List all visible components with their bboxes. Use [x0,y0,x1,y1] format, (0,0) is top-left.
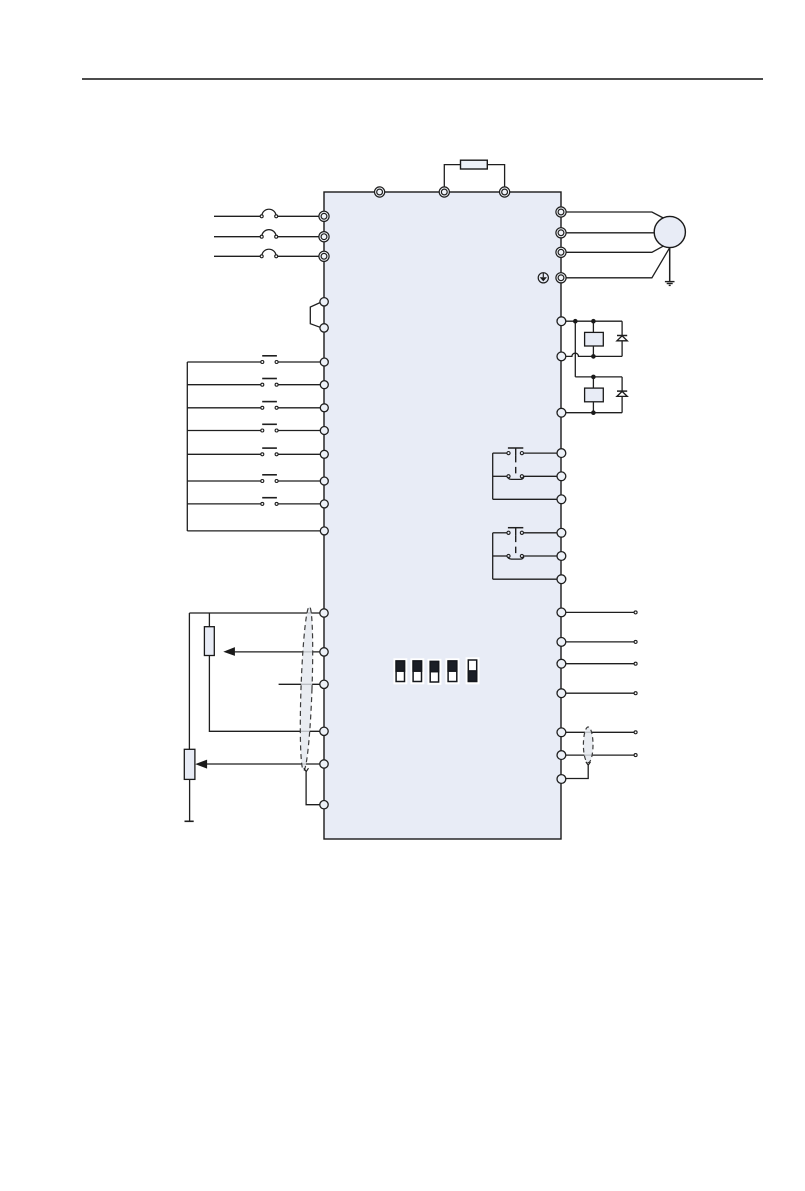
relay coil K2 [585,388,604,402]
contact RO1 NC [507,475,524,480]
PE symbol [538,273,548,283]
wire relay2 coil top stub [592,377,594,388]
terminal U [556,207,566,217]
wire DI5 [187,453,324,455]
switch DI3 [261,402,278,410]
contact RO2 NC [507,554,524,559]
terminal DI5 [320,450,328,458]
wire DI1 [187,361,324,363]
terminal relay2 [557,408,566,417]
wire braking resistor left leg [444,165,460,192]
wire braking resistor right leg [487,165,504,192]
terminal W [556,247,566,257]
shield arrow tail [586,762,591,765]
terminal DI6 [320,477,328,485]
wire DI6 [187,480,324,482]
terminal top-1 [375,187,385,197]
shield arrow tail analog [304,768,309,771]
wire RO2 bus [492,533,494,579]
wire relay1 coil top stub [592,321,594,332]
wire RO2 NC line [493,555,561,557]
terminal AGND [320,727,328,735]
wire shield drain to terminal [306,772,324,805]
breaker pole S [260,230,278,239]
wire R1 bottom to GND terminal [209,656,324,732]
terminal AI2 [320,680,328,688]
terminal AO1 [557,608,566,617]
ground tick [185,820,194,822]
terminal DI4 [320,427,328,435]
wire RO1 NO line [493,452,561,454]
terminal +10V [320,609,328,617]
potentiometer R1 [204,627,214,656]
terminal 485+ [557,728,566,737]
terminal AO2 [557,659,566,668]
wire AI2 stub [279,683,324,685]
terminal RO2-A [557,528,566,537]
wire end AO2 [634,662,637,665]
wire output V [561,232,654,234]
wire DI3 [187,407,324,409]
wire end GND1 [634,640,637,643]
wire input S [214,236,324,238]
terminal DI1 [320,358,328,366]
wire output U [561,212,663,218]
wire GND2 [561,692,634,694]
wire relay2 return rail [561,412,622,414]
switch DI4 [261,424,278,432]
inverter main block [324,192,561,839]
terminal 485- [557,751,566,760]
wire GND1 [561,641,634,643]
wire DI4 [187,430,324,432]
terminal RO1-A [557,449,566,458]
terminal COM [320,527,328,535]
dip switch S1 [393,658,407,684]
breaker pole T [260,249,278,258]
contact RO2 actuator [508,528,523,558]
terminal DI3 [320,404,328,412]
terminal AI3 [320,760,328,768]
dip switch S3 [428,659,442,685]
terminal RO1-B [557,472,566,481]
dip switch S2 [410,658,424,684]
wire R2 bottom [189,779,191,821]
terminal V [556,228,566,238]
motor ground lead [669,248,671,282]
wire relay2 coil bottom stub [592,402,594,413]
terminal top-3 [500,187,510,197]
terminal R [319,211,329,221]
terminal GND1 [557,638,566,647]
switch DI5 [261,448,278,456]
wire COM [187,530,324,532]
terminal AI1 [320,648,328,656]
wire AO2 [561,663,634,665]
wire 485+ [561,731,634,733]
potentiometer R2 [184,749,195,779]
wire RO2 common line [493,578,561,580]
switch DI6 [261,475,278,483]
diode D1 [617,321,627,356]
switch DI7 [261,498,278,506]
jumper terminal lower [320,324,328,332]
terminal DI7 [320,500,328,508]
wire DI7 [187,503,324,505]
terminal DI2 [320,381,328,389]
breaker pole R [260,209,278,218]
junction dots relay rails [573,319,596,415]
wire AI1 with wiper arrow [223,647,324,656]
wire relay supply rail [561,320,622,322]
jumper terminal upper [320,298,328,306]
wire +10V supply [189,612,324,614]
wire RO1 bus [492,453,494,499]
dip switch S5 [466,657,480,684]
contact RO1 actuator [508,448,523,478]
braking resistor [461,160,488,169]
terminal RO1-C [557,495,566,504]
switch DI2 [261,379,278,387]
switch DI1 [261,356,278,364]
terminal T [319,251,329,261]
jumper bracket [310,303,320,328]
terminal S [319,232,329,242]
terminal comm GND [557,775,566,784]
terminal GND2 [557,689,566,698]
motor M [654,216,685,247]
wire end 485+ [634,731,637,734]
shield ellipse comm cable [583,727,593,763]
terminal top-2 [439,187,449,197]
shield ellipse analog cable [298,606,315,770]
terminal PE [556,273,566,283]
wire end GND2 [634,692,637,695]
terminal RO2-C [557,575,566,584]
contact RO1 NO [507,452,524,455]
wire end AO1 [634,611,637,614]
dip switch S4 [445,658,459,684]
wire input R [214,215,324,217]
digital input common bus [186,362,188,531]
contact RO2 NO [507,531,524,534]
wire end 485- [634,754,637,757]
wire output PE to motor ground [561,248,669,278]
wire RO2 NO line [493,532,561,534]
relay coil K1 [585,332,604,346]
wire DI2 [187,384,324,386]
wire relay2 feed vertical [574,321,576,377]
terminal relay supply [557,317,566,326]
diode D2 [617,377,627,413]
wire output W [561,246,663,252]
wire RO1 NC line [493,475,561,477]
wire comm shield drain [566,765,588,778]
wire AI3 with wiper arrow [195,760,324,769]
terminal RO2-B [557,552,566,561]
wire R1 top branch [208,613,210,627]
wire pot feed vertical [188,613,190,749]
header rule [82,78,763,80]
wire RO1 common line [493,498,561,500]
wire 485- [561,754,634,756]
wire input T [214,255,324,257]
wire AO1 [561,611,634,613]
terminal relay1 [557,352,566,361]
wire relay2 supply rail [575,376,622,378]
wire relay1 coil bottom stub [592,346,594,356]
wire relay1 return rail with hop [561,353,622,356]
ground [665,282,675,286]
terminal shield PE [320,801,328,809]
